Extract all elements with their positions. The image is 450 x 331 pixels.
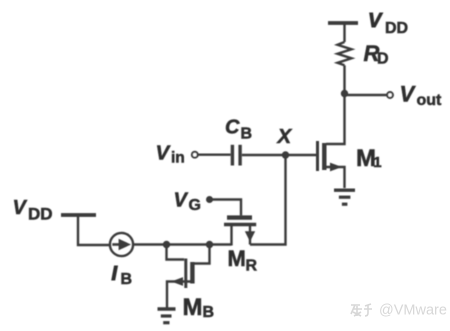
label VDD (top right) xyxy=(368,10,408,37)
ground (under M1) xyxy=(334,190,355,204)
current source IB xyxy=(110,233,133,256)
svg-text:V: V xyxy=(368,10,383,32)
wire VDD bar to IB xyxy=(78,215,110,245)
transistor MR (NMOS, rotated) xyxy=(224,218,256,246)
wire node X to M1 gate xyxy=(286,154,317,156)
wire Vin to CB xyxy=(198,153,231,155)
svg-text:R: R xyxy=(246,258,258,275)
label RD xyxy=(364,41,389,68)
terminal Vin (open circle) xyxy=(192,152,198,158)
svg-text:V: V xyxy=(156,142,172,165)
label IB xyxy=(112,263,133,288)
svg-text:B: B xyxy=(121,271,133,288)
ground (under MB) xyxy=(158,309,176,323)
svg-text:out: out xyxy=(417,92,443,109)
svg-text:M: M xyxy=(183,294,203,321)
terminal VG (filled dot) xyxy=(206,196,213,203)
terminal Vout (open circle) xyxy=(387,92,393,98)
wire VDD bar to RD xyxy=(343,23,345,42)
svg-text:C: C xyxy=(225,117,240,139)
wire VG to MR gate xyxy=(211,200,241,216)
wire RD to output node xyxy=(343,65,345,93)
svg-text:V: V xyxy=(13,197,28,219)
label X xyxy=(277,125,293,148)
wire node to Vout terminal xyxy=(345,94,388,96)
node junction (MB gate tap) xyxy=(163,241,170,248)
capacitor CB xyxy=(232,145,240,166)
label MB xyxy=(183,294,215,321)
svg-text:1: 1 xyxy=(373,154,381,171)
supply VDD bar (left) xyxy=(61,213,96,217)
svg-text:D: D xyxy=(377,51,389,68)
svg-text:@VMware: @VMware xyxy=(379,303,447,319)
svg-text:I: I xyxy=(112,263,118,285)
node X junction xyxy=(282,151,289,158)
resistor RD xyxy=(338,42,352,65)
svg-text:DD: DD xyxy=(28,205,53,224)
wire IB to MR drain xyxy=(133,243,232,245)
wire CB to node X xyxy=(242,154,286,156)
svg-text:V: V xyxy=(400,82,417,107)
svg-text:V: V xyxy=(174,190,189,212)
supply VDD bar (top right) xyxy=(328,21,358,25)
transistor MB (NMOS, diode-connected) xyxy=(167,245,210,308)
transistor M1 (NMOS) xyxy=(318,141,345,188)
svg-text:M: M xyxy=(228,246,246,271)
watermark 知乎 @VMware xyxy=(351,304,372,316)
svg-text:X: X xyxy=(277,125,293,148)
label Vin xyxy=(156,142,185,167)
svg-text:B: B xyxy=(241,126,253,143)
label Vout xyxy=(400,82,443,110)
label MR xyxy=(228,246,258,275)
svg-text:in: in xyxy=(171,150,185,167)
label VDD (left) xyxy=(13,197,53,224)
wire MR source to node X (right, up) xyxy=(250,155,286,245)
svg-text:B: B xyxy=(203,304,215,321)
wire output node to M1 drain xyxy=(326,94,345,145)
label CB xyxy=(225,117,252,143)
svg-text:DD: DD xyxy=(385,20,408,37)
node junction (MB drain tap) xyxy=(206,241,213,248)
node output junction xyxy=(341,90,348,97)
svg-text:G: G xyxy=(189,197,201,214)
label VG xyxy=(174,190,201,215)
label M1 xyxy=(356,145,382,172)
